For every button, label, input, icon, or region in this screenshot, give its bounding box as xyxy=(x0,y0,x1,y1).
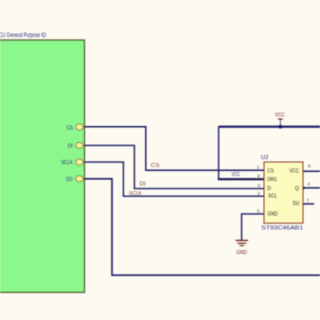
wire into ORG pin 6 (thick) xyxy=(218,178,264,180)
MCU pin DO xyxy=(66,176,83,183)
svg-text:CS: CS xyxy=(151,163,160,169)
svg-text:CS: CS xyxy=(67,126,74,132)
svg-text:5: 5 xyxy=(257,208,260,213)
svg-text:GND: GND xyxy=(237,250,248,256)
VCC rail wire (top right) xyxy=(219,126,320,128)
svg-text:U2: U2 xyxy=(261,155,269,161)
wire pin 7 DU stub xyxy=(303,203,314,205)
svg-text:SCL: SCL xyxy=(268,194,277,200)
svg-text:DI: DI xyxy=(140,181,146,187)
wire CS (MCU pin to IC pin 1) xyxy=(84,127,264,171)
svg-text:DO: DO xyxy=(66,177,73,183)
svg-text:7: 7 xyxy=(307,198,310,203)
wire pin 4 Q out xyxy=(303,187,320,189)
svg-text:6: 6 xyxy=(257,174,260,179)
wire VCC rail down to ORG pin 6 xyxy=(218,127,220,180)
MCU pin CS xyxy=(67,124,84,132)
MCU pin SCLK xyxy=(61,159,83,166)
svg-text:ORG: ORG xyxy=(267,177,277,183)
wire DI (MCU pin to IC pin 3) xyxy=(84,145,264,188)
Q pin edge marker xyxy=(303,186,306,189)
svg-text:2: 2 xyxy=(257,191,260,196)
svg-text:SCLK: SCLK xyxy=(61,160,73,166)
junction dot (VCC stub on rail) xyxy=(279,125,283,129)
svg-text:4: 4 xyxy=(308,182,311,187)
svg-text:VCC: VCC xyxy=(289,168,299,174)
svg-text:DI: DI xyxy=(68,144,73,150)
wire GND (IC pin 5 to ground symbol) xyxy=(242,214,264,240)
MCU sheet-symbol block U1 (green) xyxy=(0,40,85,292)
wire pin 8 VCC out xyxy=(303,170,320,172)
svg-text:SCLK: SCLK xyxy=(129,191,142,197)
svg-text:VCC: VCC xyxy=(275,113,285,119)
svg-text:DU: DU xyxy=(293,201,300,207)
svg-text:GND: GND xyxy=(268,212,278,218)
op IC U2 body (ST93C46 EEPROM) xyxy=(264,162,303,223)
svg-text:ST93C46AB1: ST93C46AB1 xyxy=(261,226,303,232)
svg-text:MCU General Purpose IO: MCU General Purpose IO xyxy=(0,33,46,39)
MCU pin DI xyxy=(68,142,83,149)
svg-text:1: 1 xyxy=(257,164,260,169)
svg-text:3: 3 xyxy=(257,183,260,188)
svg-text:D: D xyxy=(267,186,271,192)
svg-text:8: 8 xyxy=(308,164,311,169)
svg-text:VCC: VCC xyxy=(232,172,241,178)
VCC power symbol xyxy=(275,113,285,127)
ground symbol xyxy=(236,240,249,256)
svg-text:CS: CS xyxy=(268,168,275,174)
wire DO (MCU pin, down and right off-sheet) xyxy=(84,179,320,275)
wire SCLK (MCU pin to IC pin 2) xyxy=(84,162,264,196)
svg-text:Q: Q xyxy=(295,186,299,192)
